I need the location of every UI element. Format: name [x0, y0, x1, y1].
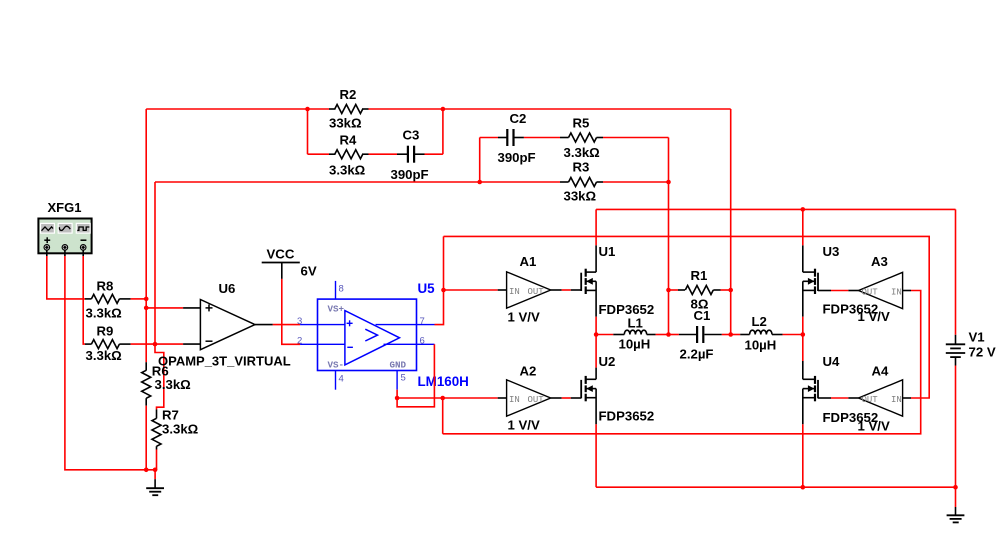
ground symbol left — [146, 470, 164, 495]
svg-text:LM160H: LM160H — [418, 374, 469, 389]
wire inverting input to U6 — [155, 343, 183, 345]
node junction R1 left — [666, 288, 671, 293]
wire XFG1 plus terminal to R8 — [47, 256, 85, 299]
node junction R2 right — [441, 107, 446, 112]
transistor U4 FDP3652 — [803, 361, 818, 424]
svg-text:OUT: OUT — [528, 395, 545, 405]
wire lower feedback rail from inverting node to C2 branch — [155, 181, 480, 183]
resistor R9 — [85, 340, 131, 349]
wire U2 source down to bottom rail — [595, 424, 597, 487]
svg-text:OUT: OUT — [528, 287, 545, 297]
resistor R1 — [669, 286, 731, 295]
svg-text:6V: 6V — [301, 264, 317, 279]
svg-text:R1: R1 — [691, 268, 708, 283]
inductor L1 — [613, 330, 655, 334]
svg-text:V1: V1 — [969, 330, 985, 345]
node junction R6 at ground rail — [144, 468, 149, 473]
wire pin5 node to A2 input node — [397, 397, 443, 399]
svg-text:U1: U1 — [599, 244, 616, 259]
wire bottom rail — [596, 486, 955, 488]
svg-text:XFG1: XFG1 — [48, 200, 82, 215]
wire U6 output — [255, 324, 273, 326]
resistor R8 — [85, 294, 131, 303]
wire R9 to inverting node — [131, 343, 155, 345]
transistor U2 FDP3652 — [581, 368, 596, 425]
pin 2 lead U5 — [300, 343, 345, 345]
pin 5 lead U5 — [396, 371, 398, 390]
wire U4 source to bottom rail — [802, 424, 804, 487]
svg-text:VS+: VS+ — [328, 304, 345, 315]
wire U5 pin5 to pin6 loop — [396, 390, 398, 398]
wire lower crossover rail to A3 input — [443, 291, 921, 434]
pin 6 lead U5 — [384, 343, 435, 345]
wire top rail corner down to U1 drain — [595, 208, 597, 210]
resistor R5 — [560, 133, 669, 142]
svg-text:L1: L1 — [628, 316, 643, 331]
wire top feedback rail from non-inverting node to R2 — [146, 108, 307, 110]
svg-text:C1: C1 — [694, 308, 711, 323]
svg-text:C2: C2 — [510, 111, 527, 126]
svg-text:FDP3652: FDP3652 — [599, 409, 655, 424]
svg-text:IN: IN — [891, 395, 902, 405]
svg-text:U6: U6 — [219, 281, 236, 296]
wire U3 drain to top rail — [802, 209, 804, 245]
svg-text:R4: R4 — [340, 133, 358, 148]
wire R7 to ground rail — [156, 450, 158, 470]
wire A2 output to U2 gate — [551, 397, 582, 399]
svg-text:OUT: OUT — [862, 395, 879, 405]
svg-text:VCC: VCC — [267, 247, 295, 262]
wire R4-C3 branch right vertical — [442, 109, 444, 154]
wire U2 drain to switch node — [595, 335, 597, 368]
svg-text:R3: R3 — [573, 160, 590, 175]
node junction non-inverting input — [144, 306, 149, 311]
capacitor C1 — [669, 326, 731, 343]
node junction battery minus on bottom rail — [953, 485, 958, 490]
wire node B vertical from top rail — [730, 109, 732, 335]
svg-text:R5: R5 — [573, 116, 590, 131]
wire A1 input node to A1 — [444, 289, 498, 291]
svg-text:3.3kΩ: 3.3kΩ — [155, 377, 192, 392]
node junction R2 left — [305, 107, 310, 112]
wire inverting node jog down to R7 — [155, 344, 164, 409]
function generator XFG1 — [38, 219, 91, 257]
resistor R6 — [142, 362, 151, 406]
svg-text:72 V: 72 V — [969, 345, 996, 360]
wire switch node to L1 — [596, 334, 613, 336]
node junction C2 branch — [477, 180, 482, 185]
wire R8 to non-inverting node — [131, 298, 147, 300]
wire non-inverting input to U6 — [146, 307, 183, 309]
wire R6 to ground rail — [145, 406, 147, 470]
power VCC symbol — [262, 263, 300, 279]
transistor U3 FDP3652 — [803, 245, 818, 316]
svg-text:3.3kΩ: 3.3kΩ — [86, 348, 123, 363]
svg-text:R9: R9 — [97, 324, 114, 339]
buffer A4 — [859, 380, 903, 416]
node junction R8 output — [144, 297, 149, 302]
battery V1 — [946, 335, 965, 366]
comparator U5 LM160H — [318, 299, 417, 370]
wire C2 branch vertical — [479, 138, 481, 183]
wire A3 output to U3 gate — [818, 290, 859, 292]
wire A1 output to U1 gate — [551, 289, 582, 291]
node junction output node B — [728, 332, 733, 337]
wire XFG1 minus terminal to R9 — [83, 256, 85, 344]
svg-text:A3: A3 — [871, 254, 888, 269]
inductor L2 — [731, 330, 803, 334]
node junction U3 drain on top rail — [801, 207, 806, 212]
svg-text:VS-: VS- — [328, 360, 345, 371]
buffer A2 — [507, 380, 551, 416]
svg-text:6: 6 — [420, 336, 425, 347]
wire crossover rail to A4 input — [444, 236, 930, 398]
node junction R3 at node A — [666, 180, 671, 185]
node junction U4 source on bottom rail — [801, 485, 806, 490]
wire U3 source to right switch node — [802, 317, 804, 335]
svg-text:OUT: OUT — [862, 288, 879, 298]
node junction A2 input — [440, 396, 445, 401]
wire A2 input node to A2 — [443, 397, 498, 399]
node junction R1 right — [728, 288, 733, 293]
svg-text:GND: GND — [390, 360, 407, 371]
pin 4 lead U5 — [335, 371, 337, 390]
wire U1 source to switch node — [595, 317, 597, 335]
wire L1 to output node A — [656, 334, 669, 336]
node junction R9 output / inverting input — [153, 342, 158, 347]
svg-text:IN: IN — [509, 395, 520, 405]
node junction right switch node — [801, 332, 806, 337]
svg-text:3.3kΩ: 3.3kΩ — [86, 306, 123, 321]
wire A1 node up to crossover rail — [443, 236, 445, 290]
node junction output node A — [666, 332, 671, 337]
ground symbol right — [947, 487, 965, 522]
svg-text:R2: R2 — [340, 87, 357, 102]
svg-text:2: 2 — [297, 336, 302, 347]
wire non-inverting node down to R6 — [145, 299, 147, 362]
resistor R7 — [152, 409, 161, 449]
svg-text:1 V/V: 1 V/V — [508, 310, 540, 325]
svg-text:10µH: 10µH — [745, 338, 777, 353]
capacitor C2 — [480, 129, 560, 146]
wire node A vertical from R5 — [668, 138, 670, 335]
svg-text:4: 4 — [339, 374, 344, 385]
svg-text:3: 3 — [297, 316, 302, 327]
svg-text:L2: L2 — [752, 314, 767, 329]
node junction pin5 — [395, 396, 400, 401]
buffer A3 — [859, 272, 903, 308]
svg-text:1 V/V: 1 V/V — [858, 419, 890, 434]
svg-text:C3: C3 — [403, 128, 420, 143]
wire battery minus to bottom rail — [955, 366, 957, 488]
svg-text:A2: A2 — [520, 364, 537, 379]
svg-text:10µH: 10µH — [619, 337, 651, 352]
svg-text:1 V/V: 1 V/V — [858, 309, 890, 324]
svg-text:U5: U5 — [418, 281, 436, 296]
wire VCC to U5 pin 2 — [282, 279, 300, 344]
svg-text:8: 8 — [339, 284, 344, 295]
svg-text:A1: A1 — [520, 254, 537, 269]
wire positive feedback vertical from top rail to non-inverting input node — [145, 109, 147, 299]
svg-text:IN: IN — [891, 288, 902, 298]
wire top rail — [596, 208, 955, 210]
svg-text:U2: U2 — [599, 354, 616, 369]
op-amp U6 — [200, 300, 255, 350]
wire U1 drain to top rail — [595, 209, 597, 245]
wire XFG1 common terminal to ground rail — [65, 256, 155, 470]
svg-text:IN: IN — [509, 287, 520, 297]
svg-text:33kΩ: 33kΩ — [329, 116, 362, 131]
wire top rail to battery plus — [955, 209, 957, 334]
wire negative feedback vertical from lower rail to inverting input node — [154, 182, 156, 344]
pin 3 lead U5 — [300, 324, 345, 326]
pin 7 lead U5 — [376, 324, 435, 326]
node junction A1 input — [441, 288, 446, 293]
svg-text:3.3kΩ: 3.3kΩ — [564, 145, 601, 160]
svg-text:FDP3652: FDP3652 — [599, 302, 655, 317]
resistor R3 — [480, 178, 669, 187]
svg-text:33kΩ: 33kΩ — [564, 189, 597, 204]
transistor U1 FDP3652 — [581, 245, 596, 316]
wire U5 pin7 to A1 input node — [435, 290, 444, 325]
svg-text:2.2µF: 2.2µF — [680, 347, 714, 362]
wire A2 node down to lower crossover rail — [442, 398, 444, 434]
svg-text:U3: U3 — [823, 244, 840, 259]
svg-text:390pF: 390pF — [498, 150, 536, 165]
svg-text:R7: R7 — [162, 408, 179, 423]
svg-text:1 V/V: 1 V/V — [508, 418, 540, 433]
svg-text:390pF: 390pF — [391, 167, 429, 182]
wire A4 output to U4 gate — [818, 397, 859, 399]
pin 8 lead U5 — [335, 281, 337, 299]
node junction R7 at ground rail — [153, 468, 158, 473]
svg-text:7: 7 — [420, 316, 425, 327]
svg-text:OPAMP_3T_VIRTUAL: OPAMP_3T_VIRTUAL — [158, 354, 291, 369]
resistor R4 — [308, 150, 398, 159]
wire U4 drain to right switch node — [802, 335, 804, 362]
svg-text:U4: U4 — [823, 354, 841, 369]
wire top rail to node B corner — [443, 108, 731, 110]
svg-text:5: 5 — [401, 373, 406, 384]
svg-text:3.3kΩ: 3.3kΩ — [162, 422, 199, 437]
capacitor C3 — [397, 146, 443, 163]
svg-text:A4: A4 — [872, 364, 890, 379]
svg-text:R8: R8 — [97, 279, 114, 294]
wire R4 branch left vertical — [307, 109, 309, 154]
buffer A1 — [507, 272, 551, 308]
resistor R2 — [308, 105, 443, 114]
svg-text:3.3kΩ: 3.3kΩ — [329, 163, 366, 178]
node junction left switch node — [594, 332, 599, 337]
